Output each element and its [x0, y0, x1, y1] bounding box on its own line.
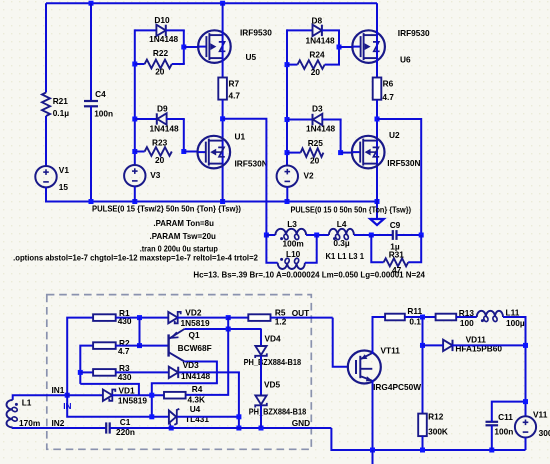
resistor R31 — [384, 258, 409, 266]
diode VD2 — [168, 312, 177, 323]
wire R5 node down to R4 — [186, 318, 229, 395]
junction D3 left — [285, 117, 290, 122]
junction R1 R2 node — [137, 315, 142, 320]
svg-text:20: 20 — [310, 155, 320, 165]
wire right gate column — [286, 29, 288, 165]
source V11 — [515, 416, 536, 437]
wire R11 node down — [422, 317, 424, 414]
diode VD11 — [443, 340, 452, 351]
svg-text:IN2: IN2 — [52, 418, 65, 428]
wire U2 gate lead — [341, 152, 354, 154]
junction C11 bottom — [489, 448, 494, 453]
wire R3 left stub — [80, 371, 93, 373]
svg-text:4.7: 4.7 — [118, 346, 130, 356]
svg-text:1N5819: 1N5819 — [181, 318, 210, 328]
junction V2 bottom — [285, 199, 290, 204]
resistor R25 — [301, 148, 324, 157]
svg-text:100µ: 100µ — [506, 318, 525, 328]
junction bridge mid right — [375, 117, 380, 122]
resistor R3 — [93, 369, 116, 376]
wire L3 lead left — [266, 234, 275, 236]
wire VD2 to R5 node — [177, 317, 228, 319]
wire riser D9 down to gate — [183, 119, 185, 152]
resistor R13 — [436, 314, 457, 321]
svg-text:L1: L1 — [22, 398, 32, 408]
wire left gate column — [134, 29, 136, 165]
wire C4 branch upper — [90, 3, 92, 101]
svg-text:15: 15 — [59, 182, 69, 192]
junction VD11 right — [523, 343, 528, 348]
resistor R24 — [298, 60, 325, 69]
svg-text:IN1: IN1 — [52, 385, 65, 395]
svg-text:D8: D8 — [312, 15, 323, 25]
wire OUT to VT11 gate — [333, 318, 349, 367]
inductor L10 parallel branch — [266, 235, 277, 263]
wire VD1 to R4 — [112, 394, 164, 396]
capacitor C9 — [392, 230, 394, 240]
transistor Q1 BCW68F — [167, 334, 169, 356]
svg-text:4.3K: 4.3K — [188, 394, 206, 404]
diode VD1 — [103, 390, 112, 401]
svg-text:V1: V1 — [59, 165, 70, 175]
diode D10 — [156, 25, 165, 36]
junction C9 right — [419, 233, 424, 238]
wire V3 to rail — [134, 186, 136, 201]
capacitor C4 — [84, 100, 98, 102]
wire D10 to riser — [166, 29, 185, 31]
svg-text:K1 L1 L3 1: K1 L1 L3 1 — [326, 251, 365, 261]
transistor U1 IRF530N — [198, 136, 231, 169]
wire R1 to VD2 — [116, 317, 169, 319]
wire riser D3 down to gate — [340, 120, 342, 153]
wire R23 left stub — [135, 151, 145, 153]
wire bridge mid left to L3 — [223, 119, 267, 235]
svg-text:R12: R12 — [428, 412, 444, 422]
source V3 — [124, 165, 145, 186]
resistor R22 — [145, 60, 172, 69]
diode VD5 zener — [255, 396, 266, 405]
svg-text:IRG4PC50W: IRG4PC50W — [373, 382, 421, 392]
resistor R2 — [93, 342, 116, 349]
wire VD4 to VD5 — [260, 356, 262, 396]
svg-text:0.1: 0.1 — [409, 317, 421, 327]
junction VD3 drop on IN2 — [236, 426, 241, 431]
wire R13 to L11 — [456, 316, 477, 318]
svg-text:L4: L4 — [337, 219, 347, 229]
junction R25 left — [285, 150, 290, 155]
inductor L11 — [477, 311, 503, 317]
wire V1 to bottom rail — [45, 187, 47, 202]
inductor L4 — [329, 229, 354, 235]
wire R21 to V1 — [45, 116, 47, 166]
svg-text:VD4: VD4 — [265, 333, 282, 343]
svg-text:1N4148: 1N4148 — [149, 34, 178, 44]
wire riser D8 down to gate — [338, 30, 340, 47]
svg-text:1N4148: 1N4148 — [306, 124, 335, 134]
svg-text:.options abstol=1e-7 chgtol=1e: .options abstol=1e-7 chgtol=1e-12 maxste… — [13, 253, 258, 262]
svg-text:R6: R6 — [383, 79, 394, 89]
wire VD11 leads — [423, 344, 444, 346]
junction VT11 emitter ground — [370, 448, 375, 453]
svg-text:U6: U6 — [400, 55, 411, 65]
transistor VT11 IRG4PC50W — [348, 351, 381, 384]
svg-text:IRF9530: IRF9530 — [240, 27, 272, 37]
wire C1 to GND exit — [110, 427, 332, 429]
resistor R1 — [93, 314, 116, 321]
wire VT11 collector up — [372, 380, 374, 450]
svg-text:R7: R7 — [229, 79, 240, 89]
wire D3 to riser — [322, 119, 342, 121]
wire R5 to OUT — [271, 317, 333, 319]
wire R2 to Q1 base — [116, 345, 168, 347]
svg-text:R22: R22 — [153, 48, 169, 58]
junction U4 anode on IN2 — [169, 426, 174, 431]
junction L3 left — [264, 233, 269, 238]
resistor R6 — [373, 78, 382, 100]
svg-text:V3: V3 — [150, 170, 161, 180]
wire D10 row left — [135, 29, 157, 31]
svg-text:IRF9530: IRF9530 — [398, 28, 430, 38]
svg-text:4.7: 4.7 — [382, 92, 394, 102]
wire GND exit down to rail — [331, 428, 525, 450]
resistor R31 branch down — [371, 235, 383, 262]
wire R24 to riser — [325, 64, 340, 66]
resistor R11 — [385, 314, 405, 321]
svg-text:L3: L3 — [287, 219, 297, 229]
svg-text:PH_BZX884-B18: PH_BZX884-B18 — [244, 357, 302, 367]
wire L10 right up — [305, 235, 317, 263]
junction U6 gate node — [337, 45, 342, 50]
wire D8 row left — [287, 29, 313, 31]
svg-text:100n: 100n — [494, 427, 513, 437]
capacitor C11 — [486, 421, 499, 423]
wire C11 top branch — [492, 402, 526, 422]
svg-text:C1: C1 — [120, 417, 131, 427]
wire L1 bottom to IN2 row — [13, 427, 106, 430]
wire V11 bottom to rail — [525, 438, 527, 451]
svg-text:.tran 0 200u 0u startup: .tran 0 200u 0u startup — [140, 243, 218, 253]
junction R11 R13 node — [420, 315, 425, 320]
svg-text:20: 20 — [311, 67, 321, 77]
wire U4 to right node — [177, 416, 239, 418]
svg-text:R21: R21 — [53, 96, 69, 106]
junction U2 gate node — [338, 150, 343, 155]
wire L11 to right column — [503, 317, 526, 416]
svg-text:VT11: VT11 — [381, 346, 401, 356]
svg-text:20: 20 — [155, 155, 165, 165]
wire VD1 riser to R2R3 node — [80, 384, 139, 395]
svg-text:100: 100 — [460, 318, 474, 328]
source V1 — [35, 166, 56, 187]
wire R25 left stub — [287, 152, 301, 154]
wire C4 branch lower — [90, 106, 92, 201]
junction D9 left — [132, 117, 137, 122]
diode VD4 zener — [255, 346, 266, 355]
wire R1 node down to R2 row — [139, 318, 141, 346]
wire R2 left drop — [80, 346, 93, 384]
node IN1 — [65, 393, 70, 398]
svg-text:PH_BZX884-B18: PH_BZX884-B18 — [249, 407, 307, 417]
diode D9 — [157, 113, 166, 124]
svg-text:D10: D10 — [154, 15, 170, 25]
wire U6 through line — [376, 3, 378, 77]
svg-text:C11: C11 — [498, 412, 513, 422]
svg-text:1N4148: 1N4148 — [150, 124, 179, 134]
transistor U5 IRF9530 — [198, 30, 231, 63]
svg-text:.PARAM Tsw=20u: .PARAM Tsw=20u — [150, 231, 216, 241]
svg-text:IRF530N: IRF530N — [387, 158, 420, 168]
wire U5 gate lead — [184, 46, 200, 48]
resistor R21 — [42, 93, 50, 117]
wire riser R24 up to gate — [338, 47, 340, 65]
wire top supply bus — [46, 2, 377, 4]
wire D3 row left — [287, 119, 313, 121]
svg-text:R4: R4 — [192, 384, 203, 394]
svg-text:Hc=13. Bs=.39 Br=.10 A=0.00002: Hc=13. Bs=.39 Br=.10 A=0.000024 Lm=0.050… — [193, 271, 425, 280]
svg-text:OUT: OUT — [292, 308, 310, 318]
wire VD5 to IN2 row — [260, 406, 262, 429]
op-amp U4 TL431 — [169, 411, 176, 424]
wire R3 to VD3 — [116, 371, 169, 373]
diode VD3 — [169, 367, 178, 378]
wire R6 to U2 — [376, 100, 378, 202]
svg-text:R25: R25 — [308, 138, 324, 148]
junction R5 left node — [226, 315, 231, 320]
resistor R4 — [164, 392, 186, 399]
svg-text:R31: R31 — [389, 249, 405, 259]
wire D8 to riser — [322, 29, 340, 31]
wire R5 node to R5 — [228, 317, 248, 319]
dashed subcircuit box — [47, 295, 312, 450]
wire IN1 to VD1 — [67, 394, 103, 396]
svg-text:1N5819: 1N5819 — [118, 396, 147, 406]
wire IN1 down to U4 row — [67, 395, 169, 417]
wire L3 to L4 — [306, 234, 329, 236]
svg-text:Q1: Q1 — [189, 330, 200, 340]
svg-text:PULSE(0 15 0 50n 50n {Ton} {Ts: PULSE(0 15 0 50n 50n {Ton} {Tsw}) — [291, 204, 412, 214]
svg-text:D9: D9 — [157, 104, 168, 114]
junction U4 left node — [149, 414, 154, 419]
wire left branch down to R21 — [45, 3, 47, 92]
svg-text:R24: R24 — [309, 49, 325, 59]
wire L4 to C9 — [354, 234, 393, 236]
wire U6 gate lead — [339, 46, 354, 48]
svg-text:0.1µ: 0.1µ — [53, 108, 70, 118]
junction U1 gate node — [181, 149, 186, 154]
resistor R23 — [145, 147, 172, 156]
transistor U2 IRF530N — [352, 136, 385, 169]
svg-text:BCW68F: BCW68F — [178, 343, 212, 353]
junction R22 left — [132, 62, 137, 67]
svg-text:V11: V11 — [533, 410, 548, 420]
junction R24 left — [285, 62, 290, 67]
svg-text:IRF530N: IRF530N — [235, 158, 268, 168]
transistor U6 IRF9530 — [352, 30, 385, 63]
svg-text:U4: U4 — [190, 404, 201, 414]
diode D8 — [313, 25, 322, 36]
wire R7 to U1 — [222, 100, 224, 202]
wire IN1 up to R1 — [67, 318, 93, 396]
source V2 — [277, 166, 298, 187]
wire emitter node to VD4 — [260, 329, 262, 346]
wire bridge mid right to C9 column — [377, 119, 421, 235]
svg-text:100m: 100m — [283, 238, 304, 248]
wire VD3 drop to U4 right node — [238, 372, 240, 428]
wire bottom rail of bridge — [46, 201, 378, 203]
svg-text:C9: C9 — [390, 220, 401, 230]
wire R12 to rail — [422, 436, 424, 450]
junction U5 drain top — [220, 1, 225, 6]
wire U5 through line — [222, 3, 224, 77]
svg-text:VD5: VD5 — [264, 380, 281, 390]
ground — [376, 202, 378, 219]
wire V2 to rail — [286, 187, 288, 202]
junction C9 left — [369, 233, 374, 238]
junction R4 row left — [149, 393, 154, 398]
svg-text:VD3: VD3 — [183, 360, 200, 370]
svg-text:D3: D3 — [312, 103, 323, 113]
inductor L1 — [13, 395, 67, 400]
capacitor C1 — [105, 422, 107, 433]
svg-text:U5: U5 — [246, 52, 257, 62]
svg-text:V2: V2 — [304, 170, 315, 180]
svg-text:170m: 170m — [19, 418, 40, 428]
svg-text:1N4148: 1N4148 — [306, 36, 335, 46]
resistor R5 — [248, 314, 270, 321]
junction C4 top — [89, 1, 94, 6]
wire R22 to riser — [172, 63, 185, 65]
junction L3 L4 node — [314, 233, 319, 238]
svg-text:L10: L10 — [286, 249, 301, 259]
inductor L3 — [275, 229, 306, 235]
junction R23 left — [132, 149, 137, 154]
svg-text:100n: 100n — [94, 109, 113, 119]
wire R22 left stub — [135, 63, 145, 65]
svg-text:.PARAM Ton=8u: .PARAM Ton=8u — [153, 218, 214, 228]
svg-text:0.3µ: 0.3µ — [333, 238, 350, 248]
junction VD5 bottom on IN2 — [259, 426, 264, 431]
resistor R12 — [418, 414, 427, 437]
wire Q1 collector route — [152, 362, 217, 418]
svg-text:C4: C4 — [95, 89, 106, 99]
svg-text:GND: GND — [292, 418, 310, 428]
wire R31 right up — [408, 235, 421, 262]
wire C11 bottom — [491, 425, 493, 450]
svg-text:300: 300 — [539, 428, 550, 438]
diode D3 — [313, 114, 322, 125]
junction emitter node — [226, 327, 231, 332]
junction R2 right node — [137, 343, 142, 348]
wire riser R22 up to gate — [183, 47, 185, 64]
junction U5 gate node — [181, 45, 186, 50]
ground output stage — [372, 450, 374, 464]
svg-text:PULSE(0 15 {Tsw/2} 50n 50n {To: PULSE(0 15 {Tsw/2} 50n 50n {Ton} {Tsw}) — [92, 203, 241, 213]
svg-text:300K: 300K — [428, 427, 448, 437]
wire riser D10 down to gate — [183, 30, 185, 47]
junction U4 right node — [236, 414, 241, 419]
wire D9 row left — [135, 118, 157, 120]
junction U1 source — [220, 199, 225, 204]
resistor R7 — [218, 78, 227, 100]
junction R3 left node — [78, 370, 83, 375]
svg-text:4.7: 4.7 — [229, 91, 241, 101]
junction bridge mid left — [220, 116, 225, 121]
junction V3 bottom — [132, 199, 137, 204]
junction R12 bottom — [420, 448, 425, 453]
svg-text:VD2: VD2 — [185, 307, 202, 317]
wire R11 to R13 — [405, 316, 436, 318]
svg-text:R23: R23 — [152, 138, 168, 148]
svg-text:U2: U2 — [389, 130, 400, 140]
svg-text:TL431: TL431 — [185, 414, 209, 424]
wire VD3 to drop — [179, 371, 240, 373]
wire U1 gate lead — [184, 151, 199, 153]
svg-text:U1: U1 — [235, 132, 246, 142]
wire D9 to riser — [166, 118, 185, 120]
junction C4 bottom — [89, 199, 94, 204]
svg-text:20: 20 — [155, 66, 165, 76]
junction C11 top on right column — [523, 399, 528, 404]
junction ground node — [375, 199, 380, 204]
wire R24 left stub — [287, 64, 298, 66]
wire C9 right — [397, 234, 422, 236]
wire Q1 emitter row — [184, 328, 261, 330]
junction VD11 left — [420, 343, 425, 348]
